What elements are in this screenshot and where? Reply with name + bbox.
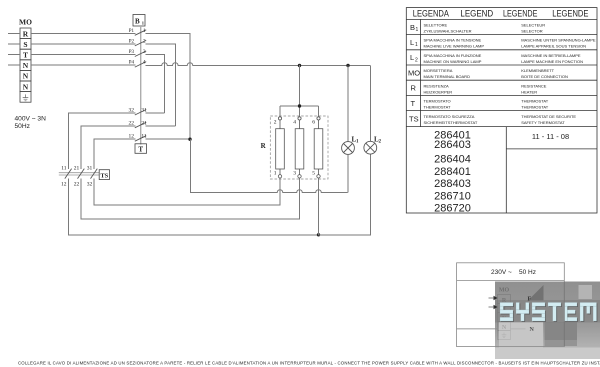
svg-text:11 - 11 - 08: 11 - 11 - 08 [532,132,569,141]
svg-text:F: F [528,297,532,303]
svg-text:T: T [23,51,28,60]
svg-text:MASCHINE UNTER SPANNUNG-LAMPE: MASCHINE UNTER SPANNUNG-LAMPE [521,38,596,43]
TS contact 11-12 blade [65,169,72,179]
svg-text:3: 3 [143,49,146,55]
selector switch B1 box [133,15,145,27]
svg-text:B: B [410,23,415,32]
wire TS 22 to resistor terminal 3 [81,178,300,219]
svg-text:286404: 286404 [434,153,471,165]
svg-text:THERMOSTAT DE SECURITE: THERMOSTAT DE SECURITE [521,114,576,119]
svg-text:2: 2 [415,57,418,63]
watermark dark triangle [528,285,544,301]
junction node resistor neutral [298,64,301,67]
svg-text:R: R [23,29,29,38]
inset terminal block MO [498,295,511,340]
svg-text:LEGEND: LEGEND [460,8,493,18]
wire neutral line from contact 4 to lamps with crossover hops [146,63,371,66]
B1 contact 22-21 blade [135,122,146,128]
svg-text:50 Hz: 50 Hz [519,269,536,276]
svg-text:N: N [23,61,29,70]
part number list [434,129,471,214]
svg-text:RESISTANCE: RESISTANCE [521,83,547,88]
wire TS 12 to resistor terminal 5 line [68,179,318,235]
wire lamp L1 return [347,154,349,192]
svg-text:SAFETY THERMOSTAT: SAFETY THERMOSTAT [521,120,565,125]
svg-text:BOITE DE CONNECTION: BOITE DE CONNECTION [521,74,568,79]
svg-text:SPIA MACCHINA IN TENSIONE: SPIA MACCHINA IN TENSIONE [424,38,482,43]
svg-text:SELETTORE: SELETTORE [424,23,448,28]
safety thermostat TS linkage bar [59,173,99,175]
svg-text:N: N [530,327,535,333]
B1 contact 12-11 blade [135,136,146,142]
inset neutral wire [457,328,526,330]
svg-text:286720: 286720 [434,203,471,215]
svg-text:COLLEGARE IL CAVO DI ALIMENTAZ: COLLEGARE IL CAVO DI ALIMENTAZIONE AD UN… [18,360,600,365]
heater element 2 [295,117,304,178]
inset phase arrows [489,296,498,309]
svg-text:HEIZKOERPER: HEIZKOERPER [424,89,453,94]
svg-text:T: T [138,146,143,154]
svg-text:TERMOSTATO SICUREZZA: TERMOSTATO SICUREZZA [424,114,475,119]
svg-text:R: R [411,84,417,93]
svg-text:286403: 286403 [434,139,471,151]
svg-text:KLEMMENBRETT: KLEMMENBRETT [521,68,554,73]
svg-text:P4: P4 [129,61,135,66]
wire L2 return [319,154,371,235]
safety thermostat TS box [99,170,109,180]
heater element 3 [314,117,323,178]
svg-text:230V ~: 230V ~ [491,269,512,276]
wire lamp L2 feed [369,66,371,142]
svg-text:12: 12 [61,181,67,187]
wire lamp L1 feed [347,66,349,142]
watermark SYSTEM lettering shadow [501,303,598,322]
watermark dark block bottom middle [545,322,578,346]
svg-text:B: B [135,18,140,26]
B1 contact P1-1 blade [135,30,146,36]
wire contact 12 to TS contact 31 [94,139,136,169]
svg-text:TS: TS [409,115,419,124]
svg-text:TS: TS [100,173,108,180]
svg-text:LEGENDE: LEGENDE [552,8,588,18]
B1 contact 32-31 blade [135,110,146,116]
wire contact 2 to contact 21 [146,44,176,126]
heater block R dashed outline [270,116,328,179]
svg-text:LAMPE APPAREIL SOUS TENSION: LAMPE APPAREIL SOUS TENSION [521,44,586,49]
svg-text:3: 3 [293,170,296,176]
svg-text:SELECTOR: SELECTOR [521,29,543,34]
svg-text:SELECTEUR: SELECTEUR [521,23,545,28]
svg-text:L: L [410,38,414,47]
svg-text:LEGENDA: LEGENDA [413,8,450,18]
junction node lamp L1 neutral [346,64,349,67]
lamp L1 [342,142,355,155]
legend table [406,8,597,213]
junction node 11 [188,138,191,141]
B1 contact P3-3 blade [135,51,146,57]
svg-text:MORSETTIERA: MORSETTIERA [424,68,453,73]
junction node heater common [298,104,301,107]
heater element 1 [276,117,285,178]
svg-text:2: 2 [143,38,146,44]
svg-text:1: 1 [274,170,277,176]
svg-text:MAIN TERMINAL BOARD: MAIN TERMINAL BOARD [424,74,471,79]
inset border seen through watermark [563,282,565,347]
ground symbol [23,94,29,100]
svg-text:P1: P1 [129,29,135,34]
svg-text:N: N [23,72,29,81]
resistor common feed wire [280,65,319,117]
svg-text:T: T [411,99,416,108]
wire TS 32 to resistor terminal 1 [94,178,280,205]
inset connection diagram box [457,263,565,347]
wire stub left of T [8,54,20,56]
watermark light strip bottom [495,348,600,360]
svg-text:MACHINE ON WARNING LAMP: MACHINE ON WARNING LAMP [424,59,482,64]
B1 mechanical linkage line [140,26,142,145]
wire R to B1 contact P1 [31,32,136,34]
svg-text:LAMPE MACHINE EN FONCTION: LAMPE MACHINE EN FONCTION [521,59,583,64]
svg-text:1: 1 [415,42,418,48]
svg-text:4: 4 [293,120,296,126]
terminal block MO [20,28,31,102]
legend row B1 text [424,23,596,125]
svg-text:P3: P3 [129,50,135,55]
watermark SYSTEM letter band [495,300,600,323]
wire T to B1 contact P3 [31,54,136,56]
svg-text:288401: 288401 [434,166,471,178]
wire resistor terminal 5 down [318,178,320,235]
svg-text:LEGENDE: LEGENDE [503,8,537,18]
svg-text:4: 4 [143,60,146,66]
svg-text:P2: P2 [129,39,135,44]
svg-text:MASCHINE IN BETRIEB-LAMPE: MASCHINE IN BETRIEB-LAMPE [521,53,581,58]
svg-text:1: 1 [416,27,419,33]
svg-text:2: 2 [274,120,277,126]
svg-text:50Hz: 50Hz [15,123,30,130]
wire contact 21 to vertical [146,125,176,127]
svg-text:TERMOSTATO: TERMOSTATO [424,99,451,104]
svg-text:288403: 288403 [434,178,471,190]
thermostat T box [135,144,147,154]
watermark light square top right [579,285,593,299]
svg-text:286710: 286710 [434,190,471,202]
svg-text:ZYKLUSWAHLSCHALTER: ZYKLUSWAHLSCHALTER [424,29,472,34]
watermark SYSTEM lettering [500,303,597,322]
svg-text:L: L [410,53,414,62]
wire N to B1 contact P4 [31,64,136,66]
wire contact 22 to TS contact 21 [81,126,136,169]
svg-text:SPIA MACCHINA IN FUNZIONE: SPIA MACCHINA IN FUNZIONE [424,53,482,58]
wire node 11 down to lamp L1 return [191,139,348,192]
TS contact 31-32 blade [91,169,98,179]
wire contact 3 to contact 31 [146,55,165,114]
svg-text:MO: MO [408,68,420,77]
svg-text:S: S [23,40,27,49]
lamp L2 [364,141,377,154]
svg-text:N: N [23,82,29,91]
wire stub left of S [8,43,20,45]
svg-text:THERMOSTAT: THERMOSTAT [521,105,549,110]
watermark light block bottom left [499,322,543,348]
B1 contact P2-2 blade [135,40,146,46]
svg-text:22: 22 [74,181,80,187]
svg-text:MO: MO [19,18,32,27]
svg-text:1: 1 [143,28,146,34]
svg-text:11: 11 [61,165,67,171]
B1 contact P4-4 blade [135,62,146,68]
svg-text:32: 32 [87,181,93,187]
svg-text:6: 6 [312,120,315,126]
svg-text:21: 21 [74,165,80,171]
svg-text:THERMOSTAT: THERMOSTAT [521,99,549,104]
inset ground symbol [502,333,507,338]
svg-text:HEATER: HEATER [521,89,537,94]
svg-text:400V ~ 3N: 400V ~ 3N [15,116,47,123]
wire contact 1 to node at 11 [146,33,191,139]
svg-text:THERMOSTAT: THERMOSTAT [424,105,452,110]
watermark logo backdrop [495,282,600,360]
wire contact 32 to TS contact 11 [68,113,135,169]
TS contact 21-22 blade [78,169,85,179]
svg-text:SICHERHEITSTHERMOSTAT: SICHERHEITSTHERMOSTAT [424,120,478,125]
wire S to B1 contact P2 [31,43,136,45]
svg-text:MACHINE LIVE WARNING LAMP: MACHINE LIVE WARNING LAMP [424,44,485,49]
wire stub left of R [8,32,20,34]
svg-text:31: 31 [87,165,93,171]
svg-text:5: 5 [312,170,315,176]
svg-text:RESISTENZA: RESISTENZA [424,83,449,88]
wire contact 31 to vertical [146,112,165,114]
wire stub left of N [8,64,20,66]
wire contact 11 to vertical [146,138,191,140]
junction node resistor terminal 5 return [317,233,320,236]
